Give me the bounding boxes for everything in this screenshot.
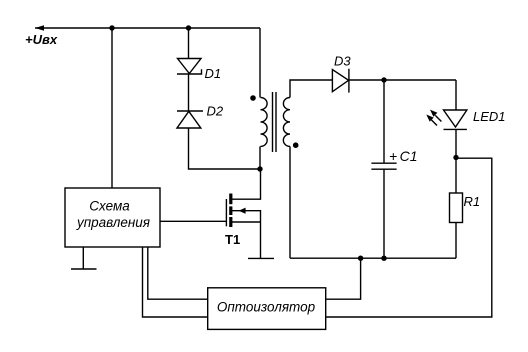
node junction LED/R1/feedback [453, 155, 458, 160]
svg-text:T1: T1 [225, 232, 240, 247]
wire C1 top [383, 80, 385, 163]
node junction top-left [109, 25, 114, 30]
capacitor C1 [371, 163, 396, 169]
wire secondary top to D3 [290, 80, 332, 98]
node junction C1 bottom [381, 256, 386, 261]
wire D3 to LED branch [349, 79, 456, 81]
svg-text:Схема: Схема [89, 199, 130, 214]
wire R1 top [455, 158, 457, 194]
wire to D1 [188, 28, 190, 59]
node input arrow [35, 25, 44, 31]
transformer secondary phase dot [293, 142, 299, 148]
svg-text:LED1: LED1 [473, 109, 506, 124]
wire top rail +Uvx [35, 27, 260, 29]
optoisolator box [208, 288, 326, 330]
wire C1 bottom [383, 169, 385, 258]
node junction C1 top [381, 77, 386, 82]
wire LED bottom [455, 129, 457, 157]
transformer primary phase dot [250, 95, 256, 101]
svg-text:D2: D2 [207, 104, 224, 119]
node junction primary bottom [257, 166, 262, 171]
node junction top D1 branch [186, 25, 191, 30]
diode D1 (zener) [177, 59, 202, 75]
transformer primary winding [261, 98, 268, 147]
resistor R1 [450, 193, 463, 223]
wire control to opto upper [148, 247, 208, 299]
node junction opto return [358, 256, 363, 261]
wire opto to bottom rail [326, 258, 361, 299]
transformer TR primary lead [259, 28, 261, 98]
control box [65, 188, 160, 247]
wire control to opto lower [143, 247, 208, 317]
LED arrows [426, 110, 441, 126]
wire D1 to D2 [188, 74, 190, 111]
wire bottom rail secondary [290, 257, 456, 259]
wire feedback right [326, 158, 492, 317]
transformer secondary winding [283, 98, 290, 147]
wire R1 bottom [455, 223, 457, 259]
ground source [248, 257, 274, 259]
svg-text:Оптоизолятор: Оптоизолятор [217, 300, 316, 315]
wire gate [160, 220, 226, 222]
LED LED1 [444, 110, 467, 129]
svg-text:D3: D3 [334, 54, 351, 69]
diode D2 [177, 111, 203, 128]
svg-text:D1: D1 [205, 66, 222, 81]
wire source down [260, 222, 262, 258]
wire LED top [455, 80, 457, 110]
svg-text:+: + [389, 148, 397, 164]
diode D3 [332, 69, 349, 93]
svg-text:+Uвх: +Uвх [25, 32, 58, 47]
wire primary bottom [259, 146, 261, 169]
svg-text:R1: R1 [464, 194, 481, 209]
transformer core [273, 92, 277, 152]
ground control box [71, 247, 97, 269]
wire D2 bottom to primary bottom [189, 128, 261, 169]
wire to control box [111, 28, 113, 188]
wire secondary bottom [289, 146, 291, 258]
svg-text:C1: C1 [400, 148, 418, 164]
transistor T1 [226, 169, 260, 227]
svg-text:управления: управления [76, 215, 150, 230]
